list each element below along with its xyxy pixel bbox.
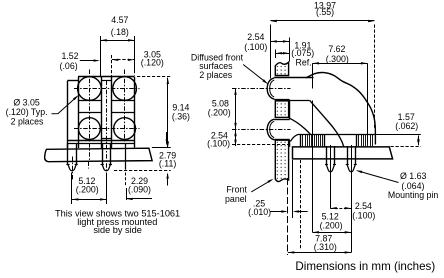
- svg-text:Mounting pin: Mounting pin: [388, 190, 438, 200]
- center line lens L2: [232, 129, 291, 131]
- dimension 13.97 (.55) line: [270, 20, 374, 22]
- leader arrow to front panel: [251, 180, 271, 192]
- pin P2 (shared middle pin): [102, 143, 104, 164]
- LED lens L1 dome (side view): [267, 78, 274, 99]
- svg-text:(.075): (.075): [291, 48, 314, 58]
- extension line x=134.4: [134, 36, 136, 70]
- svg-text:(.100): (.100): [244, 42, 267, 52]
- svg-text:Ø 1.63: Ø 1.63: [400, 171, 427, 181]
- leader arrow to lens L1: [243, 65, 266, 83]
- svg-text:(.090): (.090): [128, 184, 151, 194]
- extension line left x=270.4: [270, 25, 272, 79]
- leader arrow to mounting pin: [358, 171, 399, 183]
- dimension 2.54 (.100) pins side view: [330, 208, 351, 210]
- front panel lower broken segment (dotted): [275, 140, 288, 181]
- dimension 2.54 (.100) panel: [270, 41, 289, 43]
- standoff block right (hatched): [356, 134, 358, 147]
- svg-text:(.18): (.18): [111, 27, 129, 37]
- leader arrow to circle A1: [52, 97, 78, 114]
- pin P1 (unit1 front pin): [67, 143, 69, 164]
- dimension 5.08 (.200) vertical: [235, 89, 237, 130]
- center line vertical between units / pin2 axis: [106, 81, 108, 180]
- svg-text:side by side: side by side: [93, 225, 142, 235]
- extension dashed x=300.4: [300, 160, 302, 250]
- extension line bar top right (y=147.8): [152, 147, 171, 149]
- side pin PB (mounting pin): [347, 146, 349, 165]
- holder body lower-left curve to standoff: [290, 134, 299, 141]
- center line horizontal through top circles: [74, 88, 140, 90]
- LED lens circle B1 (unit2 top): [113, 77, 137, 101]
- svg-text:(.010): (.010): [248, 207, 271, 217]
- svg-text:(.200): (.200): [76, 184, 99, 194]
- front panel segment between lenses (dotted): [275, 101, 288, 118]
- svg-text:7.62: 7.62: [328, 44, 345, 54]
- side pin PA: [326, 146, 328, 165]
- LED lens L1 dome inner line: [270, 80, 275, 97]
- LED lens circle A2 (unit1 bottom): [79, 118, 101, 140]
- LED lens circle A1 (unit1 top): [78, 77, 102, 101]
- svg-text:panel: panel: [225, 194, 247, 204]
- mounting pin edge (unit2, thin): [125, 143, 127, 170]
- svg-text:Front: Front: [226, 184, 247, 194]
- LED lens L2 dome (side view): [267, 119, 274, 140]
- dimension 7.62 (.300) line: [313, 63, 368, 65]
- holder body inner curve from lens L1: [310, 100, 344, 146]
- dimension 1.57 (.062): [376, 134, 421, 136]
- dimension 5.12 (.200) bottom left view: [71, 173, 73, 205]
- holder body inner curve from lens L2 level: [290, 118, 311, 134]
- extension line x=312.6: [312, 63, 314, 88]
- svg-text:(.300): (.300): [326, 54, 349, 64]
- dimension 3.05 (.120) line: [112, 59, 134, 61]
- dimension .25 (.010): [287, 178, 289, 255]
- standoff block left (hatched): [300, 134, 302, 147]
- svg-text:(.062): (.062): [395, 121, 418, 131]
- holder body front edge: [289, 100, 291, 119]
- extension dashed mounting pin unit2: [125, 173, 127, 187]
- svg-text:2 places: 2 places: [11, 116, 44, 126]
- extension line x=367.3: [367, 63, 369, 143]
- center line vertical unit1 pin region: [88, 162, 90, 169]
- svg-text:1.52: 1.52: [61, 51, 78, 61]
- svg-text:(.200): (.200): [208, 108, 231, 118]
- svg-text:(.100): (.100): [352, 211, 375, 221]
- svg-text:Ref.: Ref.: [296, 57, 312, 67]
- extension dashed line pin tip level (y=170.9): [114, 170, 171, 172]
- dimension 5.12 (.200) side view: [313, 232, 352, 234]
- svg-text:(.200): (.200): [320, 220, 343, 230]
- LED lens circle B2 (unit2 bottom): [114, 118, 136, 140]
- dimension 4.57 (.18) line: [100, 40, 134, 42]
- LED lens L2 cylinder lines: [274, 119, 290, 121]
- dimension 1.52 (.06) leader arrow: [80, 60, 98, 62]
- svg-text:2 places: 2 places: [199, 70, 232, 80]
- svg-text:(.310): (.310): [314, 242, 337, 252]
- mounting panel bar (front view): [45, 148, 152, 162]
- center line horizontal through bottom circles: [74, 128, 140, 130]
- center line vertical pin1 axis: [72, 157, 74, 180]
- LED lens L2 dome inner line: [270, 121, 275, 138]
- extension line pin PA center: [330, 145, 332, 209]
- dimension 9.14 (.36) vertical line: [167, 78, 169, 148]
- svg-text:2.54: 2.54: [247, 32, 264, 42]
- center line vertical unit2: [124, 70, 126, 143]
- svg-text:(.120) Typ.: (.120) Typ.: [6, 107, 48, 117]
- extension dashed bar top to left: [232, 144, 292, 146]
- extension line x=100.4: [100, 36, 102, 76]
- svg-text:(.11): (.11): [159, 158, 177, 168]
- dimension 2.54 (.100) vertical lower: [235, 129, 237, 146]
- LED lens L1 cylinder lines: [274, 77, 313, 79]
- center line vertical unit1: [89, 70, 91, 161]
- extension line x=111.9: [111, 55, 113, 76]
- svg-text:Dimensions in mm (inches): Dimensions in mm (inches): [295, 260, 435, 273]
- left view: holder body outline (two 515-1061 side by side): [67, 81, 69, 148]
- extension line right x=374.5 (dashed): [374, 25, 376, 129]
- holder body outer dome curve: [306, 73, 376, 145]
- extension dashed line top right (y=76): [137, 76, 171, 78]
- svg-text:4.57: 4.57: [111, 15, 128, 25]
- dimension 7.87 (.310) side view: [288, 252, 351, 254]
- svg-text:(.100): (.100): [207, 138, 230, 148]
- dimension 1.91 (.075) Ref.: [275, 50, 277, 59]
- svg-text:2.54: 2.54: [355, 201, 372, 211]
- circuit board bar (side view): [293, 147, 393, 159]
- extension line x=289.3 upper: [289, 38, 291, 62]
- extension line pin PB center: [351, 145, 353, 253]
- svg-text:(.55): (.55): [316, 7, 334, 17]
- svg-text:(.36): (.36): [172, 112, 190, 122]
- dimension 2.79 (.11): [166, 132, 168, 144]
- svg-text:Ø 3.05: Ø 3.05: [13, 97, 40, 107]
- svg-text:(.06): (.06): [60, 61, 78, 71]
- dimension 2.29 (.090) bottom left view: [126, 188, 128, 200]
- standoff row top edge: [299, 134, 375, 136]
- svg-text:(.120): (.120): [141, 57, 164, 67]
- front panel upper broken segment (dotted cross-section): [275, 62, 288, 75]
- center line lens L1: [232, 88, 291, 90]
